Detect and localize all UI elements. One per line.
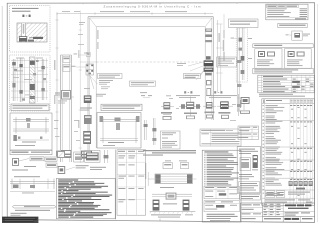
- annotation marks left of boxes: [54, 120, 80, 141]
- sheet title text: [104, 4, 201, 8]
- svg-text:Zusammenlegung 0-936/A-M in U: Zusammenlegung 0-936/A-M in Umstellung C…: [104, 4, 201, 8]
- boxed section drawing center: [97, 113, 141, 148]
- part section fig 4: [217, 101, 233, 119]
- parts list table: [262, 99, 315, 206]
- dark stamp bar bottom-left: [2, 217, 38, 223]
- notes under mid-right table: [259, 94, 305, 97]
- left stile lower hardware: [80, 95, 92, 158]
- annotation marks right of elevation: [216, 30, 236, 131]
- part section fig 3: [203, 102, 216, 119]
- hatched section detail S-S: [17, 23, 47, 42]
- small table mid-left of parts list: [238, 126, 258, 140]
- revision table: [266, 4, 308, 20]
- part section fig 1: [161, 102, 174, 120]
- caption bar: [10, 150, 52, 154]
- small S-S mark in field: [141, 95, 152, 97]
- title block: [240, 203, 314, 222]
- numbered notes column: [202, 150, 241, 222]
- dense notes block (Wichtige Hinweise): [56, 178, 115, 218]
- annotation marks mid row: [166, 95, 236, 108]
- detail box left of parts list: [237, 147, 260, 194]
- detail box S-S (dashed): [10, 6, 50, 52]
- header text above mid box: [96, 92, 147, 96]
- long bracket dimension: [12, 205, 56, 208]
- section A-A header: [176, 91, 200, 98]
- annotation marks near left stile: [78, 22, 98, 89]
- notes under bracket: [11, 210, 51, 216]
- boxed section drawing bottom-left: [10, 113, 52, 150]
- dashed transom line: [97, 61, 206, 63]
- lock hardware on right stile: [204, 29, 214, 96]
- label boxes mid elevation: [98, 74, 156, 90]
- upper rail assembly: [145, 163, 196, 188]
- label box right of lock: [217, 57, 237, 67]
- vertical section a: [12, 59, 16, 101]
- small caption box: [240, 195, 261, 200]
- hinge upper on left stile: [74, 52, 91, 56]
- middle bottom table: [116, 150, 146, 220]
- elevation top dimension row: [57, 11, 213, 15]
- small figs x142-158 above: [144, 118, 157, 145]
- samples caption box: [253, 68, 313, 73]
- mid-right table: [258, 75, 314, 93]
- label box (dashed area label): [229, 19, 259, 28]
- sample box left: [255, 49, 282, 69]
- lack label box: [278, 23, 307, 27]
- small fitting fig left of parts list: [240, 97, 250, 114]
- text box pos 30: [161, 131, 181, 149]
- detail fittings left: [12, 157, 57, 171]
- elevation inner frame: [90, 18, 212, 148]
- table mid-bottom: [200, 129, 241, 146]
- right-side dimension lines: [216, 14, 224, 92]
- small detail w/ box top-right: [286, 31, 310, 40]
- S-S caption text: [12, 8, 39, 17]
- sample box right: [285, 49, 312, 69]
- center section contents: [100, 116, 140, 146]
- elevation outer frame: [88, 17, 213, 150]
- part section fig 2: [179, 97, 201, 120]
- dimension vertical right of figs: [237, 94, 241, 116]
- dashed detail box right: [231, 28, 252, 82]
- dimension rows in left box: [11, 58, 48, 91]
- section contents: [13, 117, 49, 146]
- hinge lower on left stile: [71, 53, 98, 89]
- figs above notes block: [57, 150, 108, 174]
- vertical section b: [19, 58, 22, 103]
- label box near lock: [177, 62, 204, 80]
- narrow mullion column: [55, 55, 74, 162]
- dim text under lower assembly: [151, 214, 193, 217]
- section B-B header: [206, 91, 237, 98]
- samples header bar: [253, 44, 313, 48]
- dim line x80: [78, 11, 81, 164]
- vertical section d: [41, 59, 44, 100]
- two small rects: [163, 160, 189, 168]
- note box in left column: [11, 104, 49, 111]
- vertical section c (hatched jamb): [30, 57, 36, 103]
- dashed mullion right: [237, 28, 241, 112]
- horizontal assembly drawing: [10, 176, 55, 193]
- pos header lines: [143, 150, 196, 155]
- left dashed detail box: [10, 55, 50, 111]
- lower rail assembly: [150, 193, 196, 214]
- vertical dimension line: [54, 12, 58, 150]
- extra fine detail left box: [11, 58, 48, 103]
- note box mid: [101, 104, 142, 110]
